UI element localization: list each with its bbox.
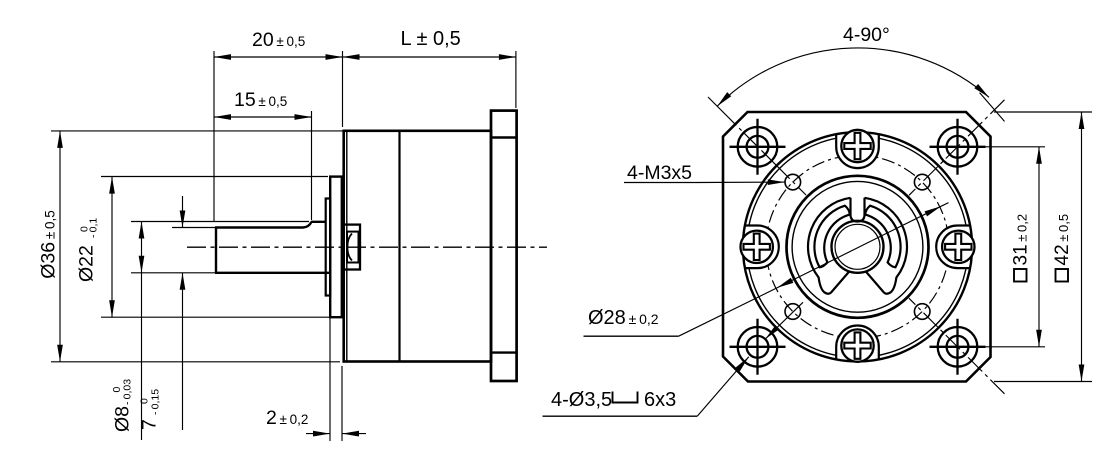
- dimension L±0,5: [343, 28, 516, 108]
- pilot boss circle Ø22: [787, 176, 929, 318]
- svg-text:Ø22: Ø22: [76, 245, 98, 282]
- svg-text:L ± 0,5: L ± 0,5: [401, 28, 461, 50]
- svg-text:4-Ø3,5: 4-Ø3,5: [551, 389, 612, 411]
- housing screw N: [841, 130, 873, 162]
- svg-text:7: 7: [139, 419, 161, 430]
- bolt circle Ø28 (dash-dot): [766, 155, 949, 338]
- hub inner: [347, 232, 359, 263]
- dimension 4-90°: [717, 24, 1004, 121]
- flange square with chamfered corners: [723, 112, 991, 382]
- corner screw hole NE: [930, 119, 986, 175]
- dimension Ø22 0/-0,1: [76, 177, 331, 318]
- housing screw W: [741, 231, 773, 263]
- body chamfer circle: [747, 136, 968, 357]
- screw ear W: [737, 226, 779, 269]
- M3 hole NW: [785, 174, 801, 190]
- dimension □31±0,2: [970, 147, 1045, 347]
- dimension Ø8 0/-0,03: [111, 222, 309, 441]
- svg-text:Ø8: Ø8: [112, 406, 134, 432]
- svg-text:Ø28 ± 0,2: Ø28 ± 0,2: [588, 307, 659, 329]
- dimension □42±0,5: [994, 112, 1092, 382]
- svg-text:4-M3x5: 4-M3x5: [627, 162, 692, 184]
- M3 hole NE: [914, 174, 930, 190]
- corner screw hole SW: [730, 319, 786, 375]
- centerline: [187, 246, 547, 248]
- svg-text:6x3: 6x3: [644, 389, 676, 411]
- body joint line: [398, 131, 400, 361]
- dimension 15±0,5: [214, 89, 312, 220]
- dimension 4-Ø3,5 counterbore 6x3: [543, 302, 804, 416]
- flange chamfer lines: [491, 138, 517, 353]
- body front chamfer line: [346, 131, 348, 361]
- diagonal centerline NW: [708, 97, 806, 195]
- screw ear S: [836, 326, 879, 368]
- svg-text:31 ± 0,2: 31 ± 0,2: [1011, 214, 1032, 266]
- shaft: [215, 222, 330, 273]
- svg-text:- 0,15: - 0,15: [150, 389, 162, 415]
- shaft circle Ø8: [832, 221, 884, 273]
- pilot boss: [330, 177, 342, 318]
- dimension 2±0,2: [266, 318, 366, 441]
- retaining ring right kidney: [865, 206, 900, 268]
- body circle Ø36: [743, 132, 972, 361]
- retaining ring right half: [865, 198, 907, 294]
- diagonal centerline SE: [909, 298, 1005, 394]
- dimension 7 0/-0,15: [139, 196, 216, 430]
- shaft chamfer circle: [835, 224, 880, 269]
- housing screw E: [942, 231, 974, 263]
- M3 hole SE: [914, 304, 930, 320]
- retaining ring left half: [808, 198, 850, 294]
- svg-text:- 0,03: - 0,03: [122, 379, 134, 405]
- rear hub: [342, 225, 360, 270]
- retaining ring top notch: [851, 198, 865, 222]
- retaining ring left kidney: [814, 206, 849, 268]
- gearbox body: [344, 131, 491, 362]
- svg-text:- 0,1: - 0,1: [87, 218, 99, 238]
- dimension Ø28±0,2: [584, 203, 949, 337]
- hub arc: [347, 234, 352, 261]
- screw ear N: [836, 126, 879, 168]
- boss chamfer circle: [792, 181, 923, 312]
- shaft step ring: [326, 199, 331, 296]
- motor flange plate: [491, 111, 517, 381]
- screw ear E: [936, 226, 978, 269]
- housing screw S: [841, 329, 873, 361]
- label 4-M3x5: [624, 162, 785, 184]
- dimension Ø36±0,5: [38, 131, 344, 362]
- svg-text:4-90°: 4-90°: [843, 24, 890, 46]
- svg-text:42 ± 0,5: 42 ± 0,5: [1052, 214, 1073, 266]
- corner screw hole NW: [730, 119, 786, 175]
- corner screw hole SE: [930, 319, 986, 375]
- M3 hole SW: [785, 304, 801, 320]
- diagonal centerline NE: [909, 100, 1005, 196]
- dimension 20±0,5: [214, 29, 343, 221]
